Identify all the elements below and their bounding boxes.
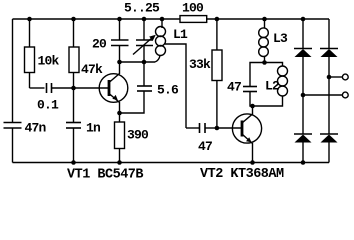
diode VD3 [302,95,304,134]
capacitor C 20 lead bottom [119,46,121,63]
resistor R 100 [180,16,207,23]
wire bottom rail [13,162,330,164]
wire 47 tank cap bottom [250,92,278,107]
transistor Q VT1 circle [99,74,128,103]
svg-text:100: 100 [182,1,204,16]
wire output terminal 1 [329,76,343,78]
svg-text:20: 20 [92,37,107,52]
capacitor C 20 lead top [119,19,121,40]
svg-text:VT1 BC547B: VT1 BC547B [67,168,143,181]
svg-text:1n: 1n [86,121,101,136]
inductor L2 coil [278,66,288,76]
variable capacitor C 5..25 plates [136,40,153,46]
node dot top rail diode1 [301,17,306,22]
wire top rail right segment [207,18,329,20]
svg-text:L3: L3 [273,31,288,46]
wire top rail left segment [13,18,181,20]
svg-text:33k: 33k [189,57,211,72]
capacitor C 0.1 [47,83,52,93]
resistor R 390 [119,113,121,122]
diode VD1 [294,48,312,50]
transistor Q VT1 base bar [108,80,111,96]
node dot top rail varcap [142,17,147,22]
node dot bottom rail 1n [71,160,76,165]
wire 47 cap to VT2 base node [205,127,217,129]
wire base wire VT1 [74,87,110,89]
svg-text:L1: L1 [173,27,188,42]
node dot emitter VT1 [117,111,122,116]
node dot VT2 collector [250,104,255,109]
node dot top rail 47k [71,17,76,22]
node dot bottom rail 390 [117,160,122,165]
wire 10k to 0.1 cap [30,87,45,89]
svg-text:47: 47 [227,80,241,95]
transistor Q VT2 emitter arrow [246,137,252,142]
wire left rail lower [12,128,14,163]
node dot top rail L1 [160,17,165,22]
svg-text:L2: L2 [265,79,280,94]
capacitor C 47 tank plates [243,87,257,92]
resistor R 33k [216,19,218,50]
resistor R 47k [73,19,75,47]
diode VD2 column (right rail) [328,19,330,49]
inductor L1 lead top [161,19,163,28]
capacitor C 1n [66,123,81,129]
node dot varcap bottom [142,60,147,65]
transistor Q VT2 circle [232,114,261,143]
wire 1n to bottom rail [73,128,75,163]
node dot bottom rail VT2 [250,160,255,165]
wire output terminal 2 [303,94,343,96]
transistor Q VT2 collector [242,106,253,123]
transistor Q VT2 base bar [241,121,244,137]
terminal 1 [342,74,348,80]
wire tank bottom to L2 [278,96,283,106]
diode VD4 [320,133,338,135]
resistor R 10k [29,19,31,47]
variable capacitor C 5..25 lead bottom [143,46,145,63]
variable capacitor C 5..25 lead top [143,19,145,40]
wire 5.6 cap top [143,62,145,86]
capacitor C 5.6 plates [137,86,152,91]
node dot top rail 33k [215,17,220,22]
wire base node down to 1n [73,88,75,123]
node dot base VT1 [71,86,76,91]
wire emitter node to 5.6 cap [120,91,145,113]
wire 0.1 cap to base node [52,87,74,89]
wire VT2 base wire [217,127,242,129]
node dot VT2 base [215,126,220,131]
capacitor C 47n [4,123,22,129]
capacitor C 47 coupling plates [200,123,206,133]
wire tank node y62 [120,61,156,63]
svg-text:47: 47 [198,139,212,154]
wire L2 top connect [265,63,283,67]
inductor L3 lead bottom [264,56,266,63]
diode VD1 column lead [302,19,304,49]
inductor L1 coil [156,27,166,37]
svg-text:5..25: 5..25 [124,1,160,16]
diode VD2 [320,48,338,50]
capacitor C 20 plates [111,40,129,46]
svg-text:0.1: 0.1 [37,98,59,113]
node dot diode col2 terminal [327,75,332,80]
svg-text:10k: 10k [38,54,60,69]
inductor L3 lead top [264,19,266,29]
transistor Q VT1 emitter arrow [112,95,118,100]
wire tap to 47 coupling cap [186,127,200,129]
node dot diode col1 terminal [301,93,306,98]
node dot bottom rail diode1 [301,160,306,165]
svg-text:390: 390 [127,128,149,143]
inductor L1 bottom exit [155,56,160,63]
transistor Q VT1 emitter [109,94,120,114]
svg-text:47n: 47n [25,121,47,136]
svg-text:5.6: 5.6 [157,83,179,98]
svg-text:VT2 KT368AM: VT2 KT368AM [200,167,284,180]
variable capacitor arrow [133,37,153,55]
wire L3 tank top left branch [250,63,265,87]
inductor L3 coil [259,28,269,38]
node dot top rail L3 [262,17,267,22]
node dot top rail 20 [117,17,122,22]
transistor Q VT2 emitter [242,134,253,163]
node dot collector VT1 [117,60,122,65]
transistor Q VT1 collector [109,62,120,83]
node dot L3 bottom [262,60,267,65]
node dot top rail 10k [27,17,32,22]
terminal 2 [342,92,348,98]
wire L1 tap [165,44,186,128]
svg-text:47k: 47k [81,62,103,77]
wire left rail upper [12,19,14,123]
